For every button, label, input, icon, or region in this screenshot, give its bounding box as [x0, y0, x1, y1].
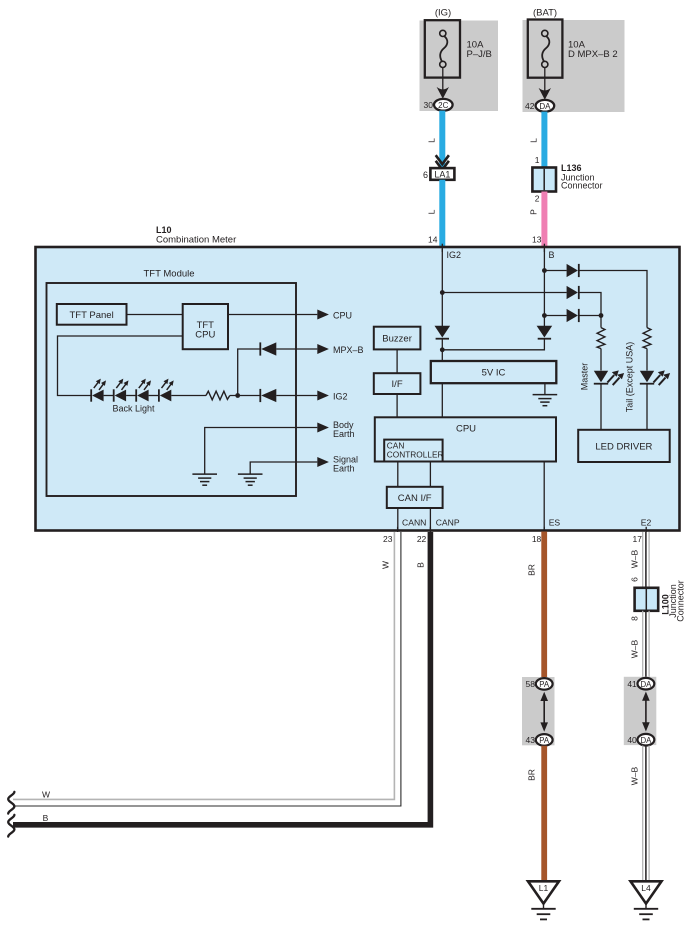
diode MPX-B [260, 342, 276, 355]
wire fuse BAT to connector DA [539, 68, 551, 100]
svg-text:23: 23 [383, 534, 393, 544]
wire CAN controller to CAN I/F left [397, 462, 399, 487]
svg-text:CPU: CPU [456, 423, 476, 434]
svg-text:L4: L4 [641, 883, 651, 893]
fuse block shield (BAT) [523, 20, 625, 112]
svg-text:2: 2 [535, 194, 540, 204]
wire CAN controller to CAN I/F right [429, 462, 431, 487]
svg-text:DA: DA [539, 102, 551, 111]
svg-text:TFT Panel: TFT Panel [70, 310, 114, 321]
svg-text:B: B [549, 250, 555, 260]
wire resistor to node [230, 395, 260, 397]
wire BR brown upper (ES) [541, 532, 547, 679]
arrow Signal Earth [317, 457, 329, 467]
svg-text:6: 6 [423, 170, 428, 180]
svg-text:43: 43 [526, 735, 536, 745]
resistor tail [643, 328, 651, 349]
wire LED4 to resistor [171, 395, 206, 397]
svg-text:22: 22 [417, 534, 427, 544]
svg-text:BR: BR [527, 564, 537, 576]
svg-text:CANP: CANP [436, 518, 460, 528]
I/F box [374, 373, 421, 394]
connector 30 2C [424, 99, 453, 111]
svg-text:5V IC: 5V IC [482, 368, 506, 379]
pin tick ES [543, 527, 545, 532]
connector 6 LA1 [423, 168, 454, 180]
arrow IG2 [317, 391, 329, 401]
diode row1 [567, 264, 579, 277]
back light LED 2 [114, 379, 129, 402]
wire B diode joins node [442, 339, 544, 350]
TFT CPU box [183, 304, 228, 349]
svg-text:L10: L10 [156, 225, 172, 235]
junction connector L136 [532, 163, 602, 192]
wire BR brown lower [541, 746, 547, 882]
svg-text:(IG): (IG) [435, 8, 451, 19]
wire W-B lower [643, 746, 649, 883]
svg-text:W–B: W–B [629, 766, 639, 785]
CAN I/F box [387, 487, 443, 508]
svg-text:18: 18 [532, 534, 542, 544]
pin tick CANP [429, 527, 431, 532]
TFT panel box [57, 304, 127, 325]
wire tail resistor to LED [646, 349, 648, 371]
wire L blue from LA1 to meter pin 14 [439, 180, 445, 247]
junction dot IG2 row2 [440, 290, 445, 295]
svg-text:L: L [427, 138, 437, 143]
svg-text:LA1: LA1 [434, 170, 450, 180]
wire TFT CPU to CPU arrow [228, 314, 317, 316]
junction connector L100 [635, 580, 686, 622]
svg-text:2C: 2C [438, 101, 448, 110]
pin tick E2 [645, 527, 647, 532]
wire row2 to master branch [579, 293, 601, 316]
svg-text:CPU: CPU [333, 310, 352, 320]
wire master LED to LED driver [600, 384, 602, 430]
junction dot B row1 [542, 268, 547, 273]
continuation brace B [8, 815, 14, 837]
svg-text:P: P [529, 209, 539, 215]
svg-text:Combination Meter: Combination Meter [156, 235, 236, 246]
svg-text:Master: Master [580, 363, 590, 391]
svg-text:IG2: IG2 [333, 391, 348, 401]
svg-text:W: W [381, 561, 391, 569]
wire B pin22 (black wire) [13, 532, 430, 825]
combination meter L10 box [36, 247, 680, 531]
wire TFT panel to TFT CPU [127, 314, 183, 316]
svg-text:58: 58 [526, 679, 536, 689]
CAN controller box [384, 440, 442, 462]
body earth wire [205, 428, 318, 474]
svg-text:PA: PA [539, 736, 550, 745]
wire CPU to ES pin [543, 462, 545, 531]
svg-text:E2: E2 [641, 518, 652, 528]
node junction backlight [235, 393, 240, 398]
svg-text:(BAT): (BAT) [533, 8, 557, 19]
junction dot 5V [440, 347, 445, 352]
wire buzzer to I/F [396, 349, 398, 373]
wire row3 joins master branch [579, 315, 601, 317]
svg-text:1: 1 [535, 155, 540, 165]
wire L blue from 2C to LA1 [439, 111, 445, 169]
wire L blue from DA to L136 [541, 112, 547, 168]
wire diode to IG2 arrow [276, 395, 317, 397]
wire [149, 395, 159, 397]
signal earth wire [250, 462, 317, 474]
CPU box [375, 417, 556, 461]
pin tick CANN [397, 527, 399, 532]
wire TFT CPU lower to backlight string [58, 336, 183, 396]
diode row3 [567, 309, 579, 322]
svg-text:DA: DA [640, 680, 652, 689]
buzzer box [374, 327, 421, 350]
resistor backlight [206, 391, 230, 400]
fuse F IG 10A P-J/B [425, 20, 492, 77]
wire row1 to tail branch [579, 271, 647, 328]
svg-text:L: L [427, 209, 437, 214]
svg-text:PA: PA [539, 680, 550, 689]
svg-text:Connector: Connector [561, 181, 603, 191]
svg-text:B: B [415, 562, 425, 568]
wire CAN I/F to CANN pin [397, 508, 399, 530]
svg-text:41: 41 [627, 679, 637, 689]
diode B down [537, 326, 553, 339]
wire 5V IC to ground [544, 383, 546, 394]
svg-text:DA: DA [640, 736, 652, 745]
diode IG2 row [260, 389, 276, 402]
TFT module box [47, 283, 297, 496]
connector pair 58 PA / 43 PA [522, 677, 555, 746]
svg-text:D MPX–B 2: D MPX–B 2 [568, 49, 618, 60]
svg-text:CANN: CANN [402, 518, 426, 528]
svg-text:6: 6 [630, 577, 640, 582]
ground 5V IC [533, 395, 558, 406]
back light LED 4 [159, 379, 174, 402]
svg-text:W: W [42, 789, 50, 799]
svg-text:CPU: CPU [195, 329, 215, 340]
svg-text:W–B: W–B [629, 639, 639, 658]
arrow Body Earth [317, 423, 329, 433]
back light LED 1 [91, 379, 106, 402]
svg-text:17: 17 [633, 534, 643, 544]
svg-text:13: 13 [532, 235, 542, 245]
wire tail LED to LED driver [646, 384, 648, 430]
wire [104, 395, 114, 397]
svg-text:TFT Module: TFT Module [144, 269, 195, 280]
wire IG2 row2 to diode [442, 292, 566, 294]
wire master resistor to LED [600, 349, 602, 371]
svg-text:IG2: IG2 [447, 250, 462, 260]
arrow CPU [317, 310, 329, 320]
wire B row1 to diode [544, 270, 566, 272]
svg-text:8: 8 [630, 616, 640, 621]
wire master branch down [600, 316, 602, 328]
5V IC box [431, 361, 557, 383]
svg-text:42: 42 [525, 101, 535, 111]
wire I/F to CPU [396, 394, 398, 417]
diode row2 [567, 286, 579, 299]
svg-text:MPX–B: MPX–B [333, 345, 364, 355]
connector pair 41 DA / 40 DA [624, 677, 657, 746]
junction dot master branch [599, 313, 604, 318]
svg-text:Earth: Earth [333, 429, 355, 439]
wire W pin23 (white wire) [13, 532, 401, 806]
fuse F BAT 10A D MPX-B 2 [528, 20, 618, 78]
arrow MPX-B [317, 344, 329, 354]
wire [126, 395, 136, 397]
back light LED 3 [136, 379, 151, 402]
svg-text:30: 30 [424, 100, 434, 110]
wire W-B middle [643, 611, 649, 677]
svg-text:ES: ES [549, 518, 561, 528]
svg-text:40: 40 [627, 735, 637, 745]
svg-text:Back Light: Back Light [113, 404, 156, 414]
svg-text:CAN I/F: CAN I/F [398, 493, 432, 504]
svg-text:B: B [43, 813, 49, 823]
LED tail [640, 370, 670, 385]
svg-text:Connector: Connector [676, 580, 686, 622]
diode IG2 down [435, 326, 451, 339]
svg-text:W–B: W–B [629, 549, 639, 568]
svg-text:BR: BR [527, 769, 537, 781]
svg-text:P–J/B: P–J/B [467, 49, 492, 60]
splice chevrons [436, 155, 449, 170]
ground body earth [192, 474, 217, 485]
wire IG2 diode to node [441, 339, 443, 361]
connector 42 DA [525, 100, 554, 112]
continuation brace W [8, 792, 14, 814]
svg-text:CONTROLLER: CONTROLLER [387, 450, 444, 460]
svg-text:LED DRIVER: LED DRIVER [595, 442, 652, 453]
LED master [594, 370, 624, 385]
fuse block shield (IG) [420, 21, 499, 112]
ground L4 [631, 881, 662, 919]
svg-text:14: 14 [428, 235, 438, 245]
wire 5V IC to CPU [441, 383, 443, 417]
wire fuse IG to connector 2C [437, 68, 449, 99]
ground L1 [528, 881, 559, 919]
svg-text:L: L [529, 138, 539, 143]
wire P pink from L136 to meter pin 13 [541, 192, 547, 248]
LED driver box [578, 430, 670, 462]
wire W-B pin17 upper (white-black wire) [643, 532, 649, 588]
svg-text:Tail (Except USA): Tail (Except USA) [625, 342, 635, 413]
svg-text:L1: L1 [539, 883, 549, 893]
wire CAN I/F to CANP pin [429, 508, 431, 530]
svg-text:I/F: I/F [392, 379, 403, 390]
pin tick 14 [441, 244, 443, 252]
pin tick 13 [543, 244, 545, 252]
wire diode to MPX-B arrow [276, 348, 317, 350]
svg-text:Buzzer: Buzzer [382, 334, 412, 345]
wire node up to MPX-B diode [238, 349, 261, 396]
resistor master [597, 328, 605, 349]
ground signal earth [238, 474, 263, 485]
junction dot B row3 [542, 313, 547, 318]
svg-text:Earth: Earth [333, 463, 355, 473]
svg-text:L136: L136 [561, 163, 582, 173]
wire B row3 to diode [544, 315, 566, 317]
